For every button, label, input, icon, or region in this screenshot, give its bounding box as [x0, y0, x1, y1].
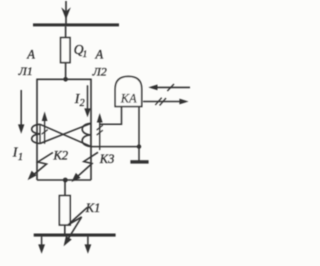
wire: line Л1 (left feeder)	[36, 79, 38, 180]
wire: bus to breaker Q1	[65, 26, 67, 38]
arrow I1: current in line Л1	[20, 90, 22, 126]
arrow: signal to relay (left-pointing)	[154, 86, 190, 88]
arrow: load feeder right	[87, 237, 89, 247]
CT winding on line Л2	[82, 123, 91, 146]
svg-text:К2: К2	[53, 149, 69, 163]
arrow: secondary current of left CT	[44, 120, 46, 144]
wire: incoming supply line at top	[65, 1, 67, 26]
busbar A (top)	[33, 23, 119, 26]
fault K2 lightning arrow	[31, 153, 53, 178]
wire: cross-connection diagonal 1	[40, 124, 91, 146]
fault K1 lightning arrow	[66, 207, 87, 242]
svg-text:1: 1	[83, 49, 88, 59]
svg-text:A: A	[26, 48, 35, 62]
wire: breaker to bottom bus	[64, 225, 66, 234]
svg-text:2: 2	[80, 98, 85, 109]
arrow I2: current in line Л2	[87, 85, 89, 110]
arrow: secondary current of right CT	[99, 121, 101, 150]
svg-text:Л2: Л2	[92, 65, 107, 79]
breaker Q1	[61, 38, 70, 63]
node: junction dot at ground lead	[137, 144, 141, 148]
arrow: load feeder left	[41, 237, 43, 247]
svg-text:Л1: Л1	[18, 64, 33, 78]
node: bottom junction dot	[63, 178, 68, 183]
svg-text:A: A	[95, 48, 104, 62]
wire: line Л2 (right feeder)	[90, 79, 92, 180]
wire: secondary return (lower) to ground	[91, 146, 139, 148]
svg-text:К1: К1	[85, 201, 101, 215]
wire: cross-connection diagonal 2	[40, 123, 91, 143]
breaker at receiving end	[59, 196, 70, 225]
busbar (bottom, receiving)	[34, 234, 116, 237]
CT winding on line Л1	[32, 124, 40, 143]
ground	[130, 160, 148, 163]
wire: secondary to relay KA (upper)	[100, 107, 122, 125]
tick on left secondary arrow	[42, 130, 48, 135]
wire: junction to lower breaker	[64, 180, 66, 196]
wire: breaker Q1 to node	[65, 63, 67, 80]
node: top junction dot	[63, 77, 68, 82]
wire: relay KA right lead down to ground	[138, 107, 140, 161]
arrow: trip output (right-pointing)	[143, 101, 181, 103]
tick on upper arrow	[167, 84, 174, 91]
fault K3 lightning arrow	[75, 152, 99, 179]
arrow: power flow into bus A	[61, 7, 71, 19]
double tick on lower arrow	[155, 98, 161, 105]
wire: bottom horizontal joining the two lines	[37, 179, 91, 181]
tick marks on right secondary arrow	[97, 125, 103, 130]
relay KA	[115, 76, 142, 106]
svg-text:К3: К3	[99, 152, 115, 166]
svg-text:1: 1	[18, 152, 23, 163]
wire: top horizontal branch	[37, 78, 91, 80]
svg-text:КА: КА	[120, 91, 137, 105]
